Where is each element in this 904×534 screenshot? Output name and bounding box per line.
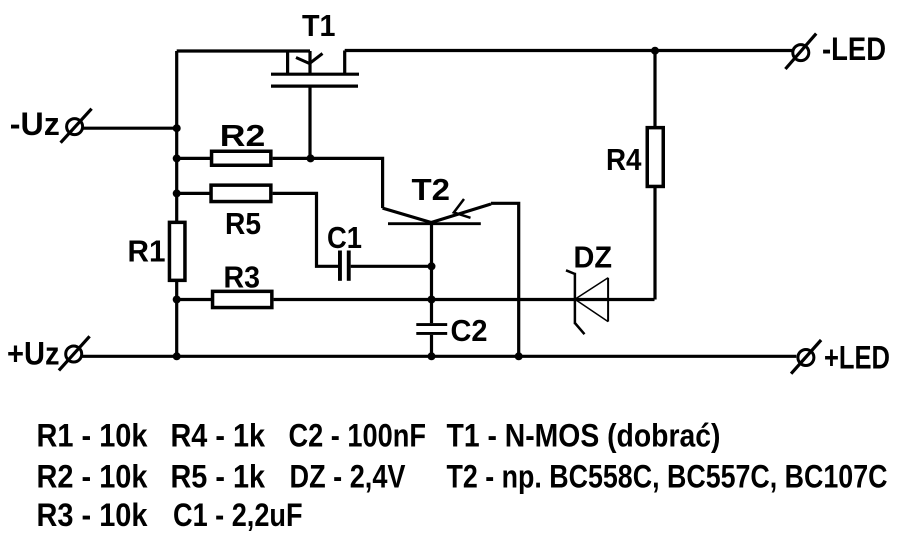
svg-text:R5: R5 — [225, 206, 261, 241]
zener diode DZ — [566, 270, 608, 334]
svg-text:+LED: +LED — [824, 340, 890, 376]
wire C2 to +rail — [430, 335, 433, 356]
capacitor C1 — [338, 251, 351, 281]
junction R1 R3 — [173, 296, 181, 304]
svg-text:T2: T2 — [412, 172, 451, 207]
junction rail T2 emitter — [515, 352, 523, 360]
svg-text:R4: R4 — [606, 142, 642, 177]
junction -Uz bus — [173, 124, 181, 132]
capacitor C2 — [416, 323, 447, 335]
svg-text:R3 - 10k: R3 - 10k — [37, 497, 149, 533]
resistor R1 — [169, 222, 185, 280]
svg-text:+Uz: +Uz — [7, 336, 60, 372]
terminal +LED — [791, 340, 821, 374]
svg-text:R5 - 1k: R5 - 1k — [171, 459, 266, 495]
resistor R3 — [213, 291, 272, 307]
junction R2 bus — [173, 154, 181, 162]
wire T2 base lead — [430, 224, 433, 323]
svg-text:C1 - 2,2uF: C1 - 2,2uF — [173, 497, 303, 533]
junction top rail R4 — [651, 47, 659, 55]
wire R3 right to R4 — [274, 298, 655, 301]
wire +Uz rail — [82, 355, 797, 358]
svg-text:DZ - 2,4V: DZ - 2,4V — [290, 459, 406, 495]
wire R2 right to T2 collector — [273, 158, 383, 208]
svg-text:R2 - 10k: R2 - 10k — [37, 459, 149, 495]
terminal +Uz — [59, 336, 90, 370]
wire R4 bottom — [653, 187, 656, 300]
junction R1 +rail — [173, 352, 181, 360]
wire -Uz to bus — [83, 127, 177, 130]
wire T1 source to -LED — [345, 49, 793, 52]
wire T1 gate — [308, 86, 311, 158]
svg-text:DZ: DZ — [574, 240, 613, 275]
junction C1 base — [428, 262, 436, 270]
junction R2 gate — [307, 154, 315, 162]
junction R5 bus — [173, 189, 181, 197]
transistor T2 — [383, 199, 491, 224]
svg-text:R1: R1 — [128, 233, 166, 268]
svg-text:T1: T1 — [302, 8, 336, 43]
junction rail C2 — [428, 352, 436, 360]
svg-text:T1 - N-MOS (dobrać): T1 - N-MOS (dobrać) — [447, 418, 721, 454]
transistor T1 — [271, 51, 359, 87]
wire R5 left — [177, 192, 211, 195]
svg-text:R3: R3 — [224, 260, 261, 295]
resistor R2 — [212, 151, 271, 165]
wire R5 right to C1 — [273, 193, 338, 266]
resistor R4 — [647, 128, 663, 187]
svg-text:-Uz: -Uz — [10, 106, 60, 142]
terminal -LED — [785, 34, 816, 69]
svg-text:R4 - 1k: R4 - 1k — [171, 418, 266, 454]
wire top rail drain side — [177, 49, 310, 52]
terminal -Uz — [61, 109, 92, 143]
svg-text:R2: R2 — [220, 118, 265, 153]
svg-text:C2 - 100nF: C2 - 100nF — [289, 418, 427, 454]
svg-text:C2: C2 — [451, 313, 488, 348]
wire R1 bottom — [175, 280, 178, 356]
wire left vertical bus — [175, 51, 178, 222]
wire C1 to T2 base — [351, 265, 432, 268]
svg-text:R1 - 10k: R1 - 10k — [37, 418, 149, 454]
svg-text:C1: C1 — [327, 220, 362, 255]
wire R4 top — [653, 51, 656, 127]
resistor R5 — [211, 185, 271, 201]
wire T2 emitter to +rail — [491, 203, 519, 356]
junction R3 base — [428, 296, 436, 304]
wire R2 left — [177, 157, 211, 160]
svg-text:-LED: -LED — [822, 31, 886, 67]
svg-text:T2 - np. BC558C, BC557C, BC107: T2 - np. BC558C, BC557C, BC107C — [447, 459, 888, 495]
wire R3 left — [177, 298, 213, 301]
